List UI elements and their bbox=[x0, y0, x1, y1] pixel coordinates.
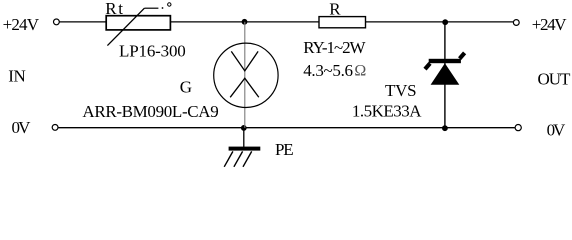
svg-text:IN: IN bbox=[8, 67, 26, 86]
svg-text:Ω: Ω bbox=[354, 63, 366, 80]
svg-text:R: R bbox=[329, 0, 341, 18]
svg-text:ARR-BM090L-CA9: ARR-BM090L-CA9 bbox=[82, 102, 218, 121]
svg-text:0V: 0V bbox=[12, 118, 32, 137]
svg-text:+24V: +24V bbox=[3, 15, 40, 34]
svg-text:RY-1~2W: RY-1~2W bbox=[303, 38, 366, 57]
svg-text:+24V: +24V bbox=[532, 15, 567, 34]
svg-text:G: G bbox=[180, 78, 192, 97]
svg-text:OUT: OUT bbox=[538, 69, 572, 88]
svg-text:LP16-300: LP16-300 bbox=[119, 42, 186, 61]
svg-text:0V: 0V bbox=[547, 121, 566, 140]
svg-text:Rt: Rt bbox=[105, 0, 123, 18]
svg-text:4.3~5.6: 4.3~5.6 bbox=[303, 61, 353, 80]
svg-text:TVS: TVS bbox=[385, 81, 417, 100]
svg-text:PE: PE bbox=[275, 140, 294, 159]
svg-text:1.5KE33A: 1.5KE33A bbox=[352, 101, 422, 120]
